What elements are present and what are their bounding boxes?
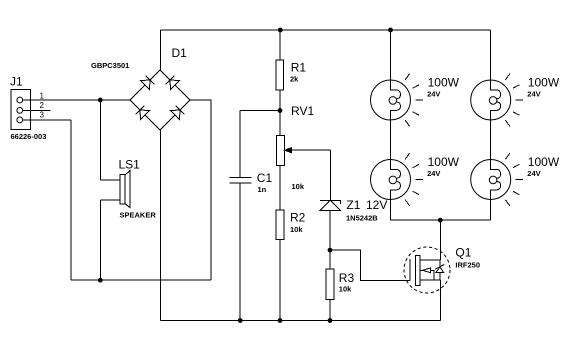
svg-text:10k: 10k	[290, 225, 303, 234]
svg-text:1n: 1n	[258, 185, 267, 194]
lamp DS4 100W 24V	[471, 153, 524, 206]
wire C1 top lead	[239, 111, 241, 178]
resistor R2	[276, 210, 284, 240]
diode D1 top-left	[141, 76, 155, 90]
wire J1 pin1 to bridge left vertex	[23, 99, 130, 101]
connector J1 pin2 circle	[17, 108, 23, 114]
transistor Q1 drain lead	[420, 259, 440, 261]
svg-text:R3: R3	[339, 271, 355, 285]
lamp DS2 100W 24V	[471, 74, 524, 127]
transistor Q1 gate bar	[409, 259, 411, 280]
svg-text:12V: 12V	[366, 198, 387, 212]
svg-text:100W: 100W	[528, 155, 560, 169]
svg-text:100W: 100W	[528, 75, 560, 89]
node ground junction R2	[278, 318, 283, 323]
label J1 value 66226-003	[11, 132, 47, 141]
transistor Q1 channel plate	[415, 255, 420, 285]
diode D1 bottom-left	[136, 106, 150, 120]
label Q1 value IRF250	[455, 260, 480, 269]
wire top rail V+	[160, 29, 490, 31]
connector J1 body	[11, 89, 31, 129]
svg-text:10k: 10k	[292, 182, 305, 191]
label R2	[290, 211, 306, 225]
svg-text:100W: 100W	[428, 75, 460, 89]
node speaker-bottom junction	[98, 278, 103, 283]
svg-text:J1: J1	[10, 75, 23, 89]
node top-rail junction at lamp column 1	[388, 28, 393, 33]
label LS1	[119, 158, 141, 172]
wire speaker upper lead	[100, 179, 120, 181]
svg-text:C1: C1	[257, 171, 273, 185]
speaker LS1 symbol	[120, 171, 130, 208]
svg-text:2k: 2k	[290, 75, 299, 84]
wire R1 to RV1	[279, 90, 281, 136]
svg-text:Q1: Q1	[455, 246, 471, 260]
node pin1 / speaker junction	[98, 98, 103, 103]
wire bridge bottom to ground rail	[159, 130, 161, 321]
svg-text:66226-003: 66226-003	[11, 132, 47, 141]
svg-text:3: 3	[40, 111, 45, 120]
wire lower-left rail	[71, 279, 211, 281]
bridge rectifier D1 diamond	[130, 70, 190, 130]
wire RV1 to R2	[279, 165, 281, 210]
resistor R1	[276, 60, 284, 90]
svg-text:IRF250: IRF250	[455, 260, 480, 269]
wire bottom ground rail	[160, 320, 440, 322]
wire lamp column 1 top	[390, 30, 392, 80]
lamp DS1 100W 24V	[371, 74, 424, 127]
wire lamp bottom rail	[391, 219, 491, 221]
lamp DS3 100W 24V	[371, 153, 424, 206]
wire lamp column 2 top	[490, 30, 492, 80]
wire Q1 source down to ground rail	[439, 280, 441, 321]
label pin 3	[40, 111, 45, 120]
wire Z1 to junction	[329, 210, 331, 250]
svg-text:1N5242B: 1N5242B	[346, 213, 378, 222]
label RV1	[291, 104, 314, 118]
transistor Q1 body arrow	[420, 268, 434, 280]
svg-text:10k: 10k	[339, 285, 352, 294]
label C1 value 1n	[258, 185, 267, 194]
node lamp-rail / drain junction	[438, 218, 443, 223]
label C1	[257, 171, 273, 185]
diode D1 bottom-right	[171, 106, 185, 120]
wire junction to R3	[329, 250, 331, 269]
svg-text:100W: 100W	[428, 155, 460, 169]
svg-text:1: 1	[40, 91, 45, 100]
wire J1 pin3 right	[23, 119, 71, 121]
transistor Q1 body circle	[404, 247, 450, 293]
wire top rail to R1	[279, 30, 281, 60]
wire C1 bottom lead	[239, 183, 241, 321]
node Z1/R3/gate junction	[328, 248, 333, 253]
connector J1 pin1 circle	[17, 97, 23, 103]
wire J1 pin2 stub	[23, 109, 51, 111]
potentiometer RV1 wiper arrow	[285, 148, 331, 153]
svg-text:GBPC3501: GBPC3501	[91, 61, 129, 70]
wire top rail to bridge top	[159, 30, 161, 70]
label lamp4 100W	[528, 155, 560, 169]
label J1	[10, 75, 23, 89]
wire lamp column 1 middle	[390, 120, 392, 160]
svg-text:24V: 24V	[427, 89, 440, 98]
svg-text:24V: 24V	[427, 169, 440, 178]
wire node to C1 top	[240, 110, 280, 112]
label R3 value 10k	[339, 285, 352, 294]
label D1	[172, 46, 188, 60]
wire bridge right vertex to lower rail	[190, 100, 211, 280]
label lamp2 24V	[527, 89, 540, 98]
diode D1 top-right	[166, 76, 180, 90]
label lamp1 24V	[427, 89, 440, 98]
wire RV1 wiper down to Z1	[329, 150, 331, 200]
wire Q1 drain up to lamp rail	[439, 220, 441, 260]
wire pin1 node down to speaker	[99, 100, 101, 180]
node top-rail junction at R1 column	[278, 28, 283, 33]
transistor Q1 source lead	[420, 279, 440, 281]
label Z1 value 1N5242B	[346, 213, 378, 222]
node R1/RV1/C1 junction	[278, 108, 283, 113]
resistor R3	[326, 269, 334, 300]
wire speaker down to lower rail	[99, 200, 101, 280]
potentiometer RV1 body	[276, 136, 284, 166]
svg-text:R1: R1	[291, 61, 307, 75]
connector J1 pin3 circle	[17, 117, 23, 123]
svg-text:Z1: Z1	[346, 198, 360, 212]
wire junction to Q1 gate	[330, 250, 410, 280]
svg-text:SPEAKER: SPEAKER	[120, 211, 157, 220]
label RV1 value 10k	[292, 182, 305, 191]
svg-text:24V: 24V	[527, 169, 540, 178]
svg-text:24V: 24V	[527, 89, 540, 98]
label Q1	[455, 246, 471, 260]
label lamp1 100W	[428, 75, 460, 89]
svg-text:D1: D1	[172, 46, 188, 60]
label pin 2	[40, 101, 45, 110]
node ground junction R3	[328, 318, 333, 323]
wire lamp column 2 middle	[490, 120, 492, 160]
label SPEAKER	[120, 211, 157, 220]
wire R2 to ground rail	[279, 240, 281, 321]
capacitor C1 plates	[230, 177, 252, 182]
wire J1 pin3 down	[70, 120, 72, 280]
label lamp3 24V	[427, 169, 440, 178]
svg-text:R2: R2	[290, 211, 306, 225]
label Z1	[346, 198, 360, 212]
label R2 value 10k	[290, 225, 303, 234]
wire lamp column 1 bottom	[390, 200, 392, 221]
wire lamp column 2 bottom	[490, 200, 492, 221]
label R1	[291, 61, 307, 75]
svg-text:2: 2	[40, 101, 45, 110]
svg-text:RV1: RV1	[291, 104, 314, 118]
label R3	[339, 271, 355, 285]
svg-text:LS1: LS1	[119, 158, 141, 172]
label pin 1	[40, 91, 45, 100]
transistor Q1 body diode	[435, 260, 444, 280]
label 12V	[366, 198, 387, 212]
label lamp4 24V	[527, 169, 540, 178]
node ground junction C1	[238, 318, 243, 323]
label GBPC3501	[91, 61, 129, 70]
label R1 value 2k	[290, 75, 299, 84]
label lamp2 100W	[528, 75, 560, 89]
label lamp3 100W	[428, 155, 460, 169]
wire R3 to ground rail	[329, 300, 331, 321]
zener diode Z1	[320, 200, 340, 210]
wire speaker lower lead	[100, 199, 120, 201]
